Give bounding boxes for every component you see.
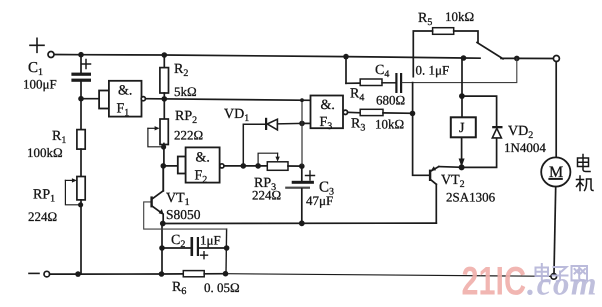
svg-text:100μF: 100μF: [23, 77, 57, 92]
svg-text:M: M: [549, 164, 563, 181]
node: VD1 branch on F2 output: [241, 163, 247, 169]
resistor R3: [360, 109, 383, 115]
svg-text:100kΩ: 100kΩ: [27, 145, 63, 160]
wire R5 node to VT2 base: [413, 83, 429, 176]
svg-text:C4: C4: [375, 63, 389, 80]
svg-text:R5: R5: [418, 11, 432, 28]
relay coil J: [451, 96, 476, 137]
svg-text:1N4004: 1N4004: [504, 140, 546, 155]
node: bottom rail left of R6: [159, 271, 165, 277]
wire top rail left section: [54, 55, 480, 59]
node: F1 wire tap: [300, 98, 304, 102]
capacitor C3: [285, 166, 314, 223]
node: R2/RP2/F1-output junction: [162, 96, 168, 102]
svg-text:&.: &.: [118, 84, 132, 99]
capacitor C4: [382, 58, 517, 93]
wire C2 right leg: [225, 229, 228, 274]
wire VT1 base sense line: [144, 202, 227, 229]
node: VT2 emitter / J / VD2: [459, 164, 465, 170]
node: bottom rail at R1 branch: [75, 271, 81, 277]
node: C2 left plate leg: [159, 245, 165, 251]
node: R3/R5/VT2 base: [410, 111, 416, 117]
svg-text:47μF: 47μF: [306, 193, 333, 208]
wire F3 input node vertical: [301, 100, 303, 166]
svg-text:R6: R6: [172, 280, 186, 297]
transistor VT2: [429, 166, 462, 223]
wire bottom rail right section: [226, 274, 552, 277]
node: J top: [459, 93, 465, 99]
wire VT1 collector chain: [162, 166, 164, 191]
svg-text:R2: R2: [174, 62, 188, 79]
resistor R6: [183, 271, 204, 277]
wire R3 to node: [383, 112, 413, 114]
svg-text:21IC: 21IC: [462, 260, 527, 304]
svg-text:RP1: RP1: [33, 188, 55, 205]
gate F1: [99, 81, 145, 117]
svg-text:VT2: VT2: [441, 173, 465, 190]
positive terminal: [30, 38, 54, 57]
svg-text:RP2: RP2: [175, 109, 197, 126]
node: RP3/C3/F3 junction: [299, 163, 305, 169]
switch S (relay contact): [477, 43, 503, 59]
gate F3: [311, 96, 348, 129]
wire top rail right section: [501, 57, 553, 59]
node: VT1 collector / F2 input branch: [161, 163, 167, 169]
resistor R2: [160, 55, 169, 99]
svg-text:2SA1306: 2SA1306: [446, 190, 496, 205]
node: rail junction at relay branch: [461, 55, 467, 61]
terminal bottom right (open circle): [551, 274, 557, 280]
diode VD2: [492, 126, 502, 138]
svg-text:10kΩ: 10kΩ: [375, 117, 404, 132]
svg-text:R3: R3: [351, 117, 365, 134]
potentiometer RP1: [65, 177, 85, 205]
node: C2 right plate leg: [224, 245, 230, 251]
svg-text:224Ω: 224Ω: [252, 188, 281, 203]
wire bottom rail left section: [50, 273, 184, 275]
node: RP1 wiper tie: [78, 202, 83, 207]
svg-text:C1: C1: [28, 60, 43, 78]
wire R6 right to rail: [204, 273, 225, 275]
svg-text:VT1: VT1: [166, 191, 190, 208]
capacitor C2: [162, 237, 227, 259]
svg-text:S8050: S8050: [166, 207, 201, 222]
svg-text:0. 05Ω: 0. 05Ω: [204, 280, 240, 295]
watermark dianziwang: [536, 264, 588, 281]
capacitor C1: [71, 55, 91, 99]
wire node to F3 lower input: [302, 122, 311, 124]
node: rail junction at R2: [162, 52, 168, 58]
node: RP3 wiper tie: [255, 163, 261, 169]
resistor R5: [413, 28, 478, 77]
node: C3 bottom: [299, 220, 305, 226]
resistor R4: [346, 57, 382, 86]
wire emitter rail y223: [163, 222, 437, 224]
svg-text:J: J: [459, 121, 465, 136]
node: emitter wire / C2 left: [160, 221, 166, 227]
potentiometer RP3: [258, 153, 302, 170]
wire F2 output: [224, 165, 267, 167]
node: rail junction right of switch: [514, 56, 520, 62]
node: VD1 anode / F3 lower input: [299, 121, 305, 127]
svg-text:680Ω: 680Ω: [376, 93, 405, 108]
svg-text:VD2: VD2: [508, 124, 533, 141]
svg-text:10kΩ: 10kΩ: [445, 9, 474, 24]
potentiometer RP2: [148, 99, 168, 166]
svg-text:5kΩ: 5kΩ: [174, 84, 197, 99]
svg-text:0. 1μF: 0. 1μF: [416, 63, 450, 78]
svg-text:R1: R1: [52, 129, 66, 146]
svg-text:VD1: VD1: [224, 107, 249, 124]
node A: C1/R1/F1 junction: [78, 96, 84, 102]
svg-text:&.: &.: [196, 151, 210, 166]
svg-text:C2: C2: [171, 233, 185, 250]
motor M: [541, 62, 570, 274]
resistor R1: [77, 130, 85, 150]
wire J/emitter vertical with arrow: [459, 137, 465, 167]
svg-text:1μF: 1μF: [200, 233, 221, 248]
svg-text:&.: &.: [321, 98, 335, 113]
label dian (motor chinese): [578, 155, 591, 172]
wire F1 output to F3 input: [145, 99, 310, 101]
negative terminal: [29, 271, 50, 277]
svg-text:224Ω: 224Ω: [28, 209, 57, 224]
wire rail to J: [461, 58, 463, 96]
wire junction A to F1 input: [81, 98, 99, 100]
svg-text:R4: R4: [350, 87, 364, 104]
wire C2 left leg: [161, 224, 163, 274]
wire F3 output: [348, 111, 361, 114]
node: bottom rail right of R6: [223, 271, 229, 277]
wire junction A down to R1: [80, 99, 82, 130]
wire emitter to VD2: [462, 138, 497, 168]
label ji (motor chinese): [577, 176, 594, 191]
wire RP1 to bottom rail: [80, 200, 82, 274]
node: rail junction at C1: [78, 52, 84, 58]
transistor VT1: [150, 166, 163, 224]
wire R1 to RP1: [80, 149, 82, 176]
wire J top to VD2 top: [462, 96, 497, 126]
diode VD1: [243, 118, 302, 166]
node: RP2 wiper tie: [161, 144, 166, 149]
terminal to motor (open circle): [553, 56, 559, 62]
node: rail junction at R4: [343, 54, 349, 60]
svg-text:222Ω: 222Ω: [174, 128, 203, 143]
gate F2: [163, 147, 224, 182]
